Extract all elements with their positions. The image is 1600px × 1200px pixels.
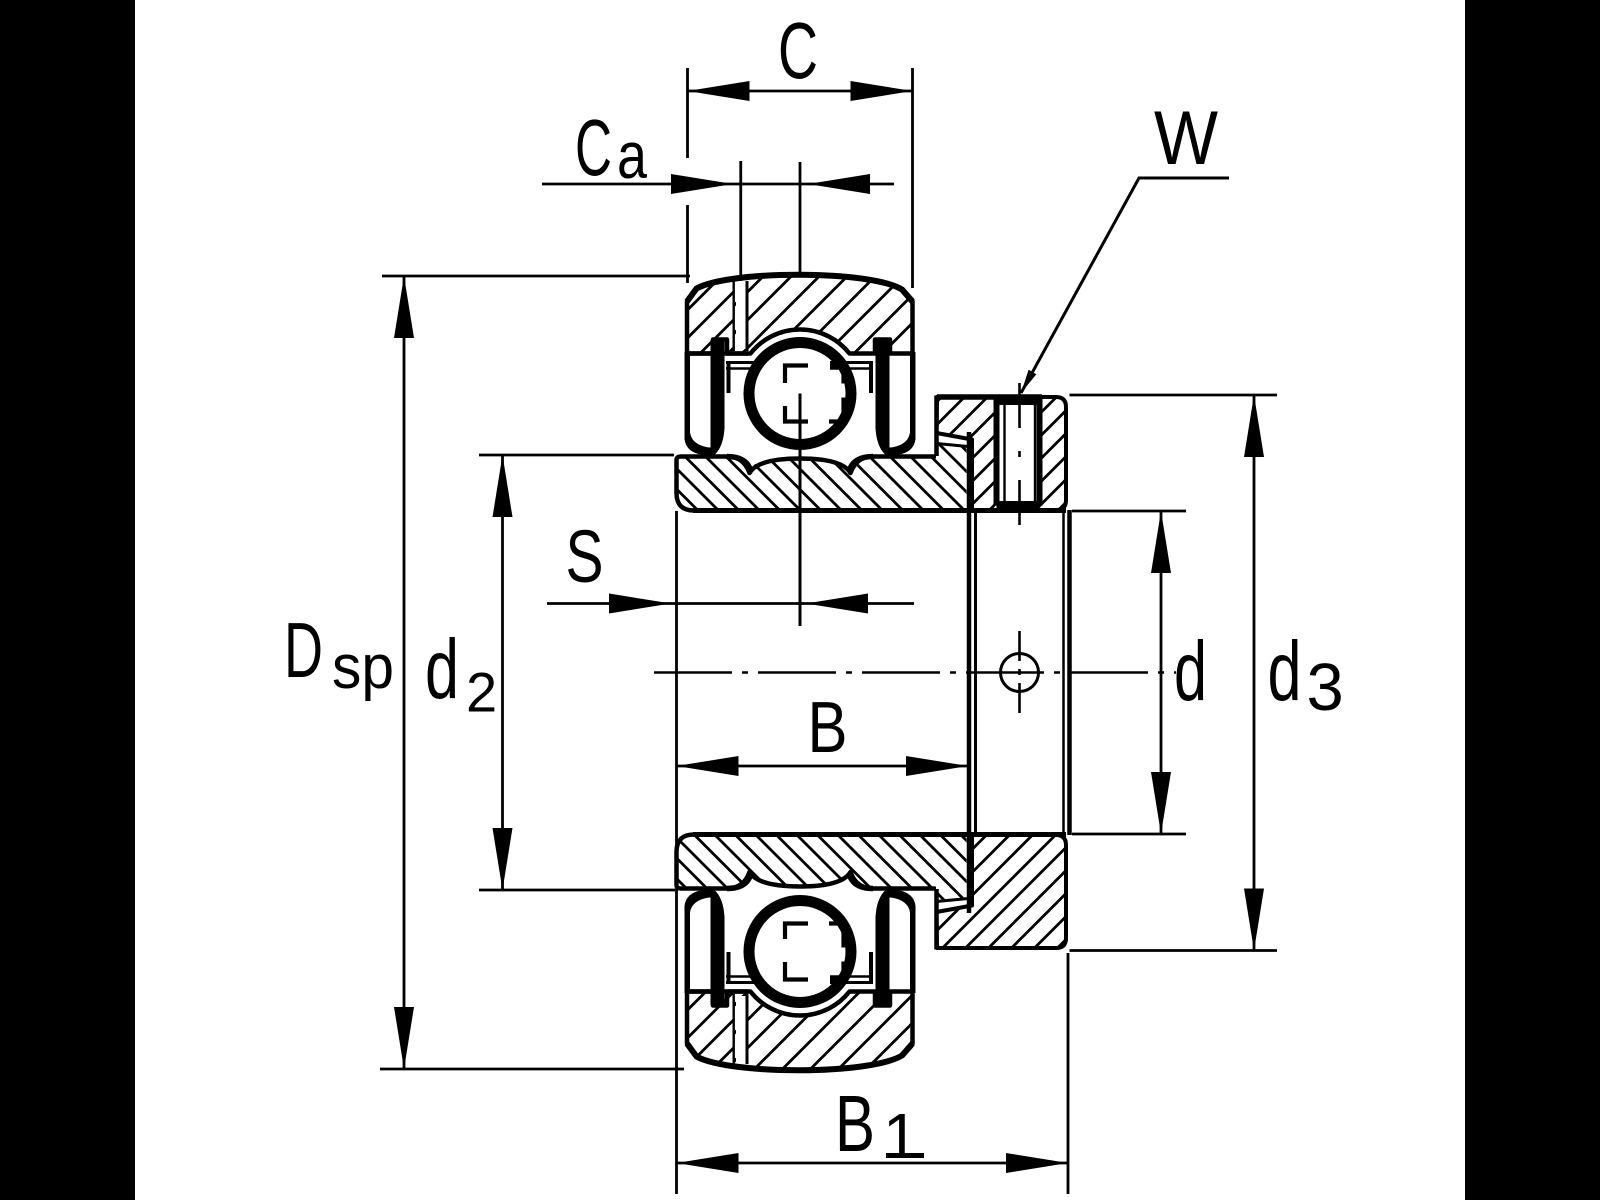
- outer ring top sphere curve (thick): [687, 275, 913, 302]
- B1 dimension: [677, 953, 1069, 1194]
- collar face edge: [934, 396, 939, 457]
- ball: [749, 343, 851, 445]
- inner ring extension surface line: [915, 455, 936, 459]
- screw hole: white + walls + threads: [994, 400, 1043, 506]
- inner ring outline: [677, 457, 935, 511]
- eccentric lower wedge line: [937, 444, 969, 447]
- Ca dimension: [542, 103, 894, 281]
- locating slot (white band): [736, 283, 746, 349]
- svg-text:S: S: [566, 515, 604, 598]
- C dimension: [688, 6, 913, 288]
- lower outer ring fill: [687, 992, 913, 1071]
- lower half = mirror: [677, 835, 1067, 1071]
- upper outer ring fill: [687, 275, 913, 354]
- S dimension: [547, 515, 914, 614]
- left seal: [685, 340, 725, 455]
- upper inner ring fill: [677, 444, 967, 511]
- screw circle on shaft: [1001, 654, 1039, 692]
- screw axis upper: [1018, 383, 1021, 530]
- Dsp dimension: [284, 276, 690, 1069]
- W label + leader: [1021, 96, 1229, 393]
- flange re-phase fills: [687, 281, 734, 353]
- cage square segments: [785, 366, 844, 422]
- lines crossing the bore (faces): [967, 510, 972, 835]
- svg-text:d: d: [1174, 624, 1207, 718]
- right seal: [876, 340, 916, 455]
- raceway shoulder curves: [727, 457, 750, 469]
- svg-text:W: W: [1154, 96, 1218, 181]
- boss step: [967, 432, 972, 511]
- lower inner ring fill: [677, 835, 967, 902]
- d dimension: [1072, 511, 1207, 834]
- svg-text:C: C: [778, 6, 818, 95]
- bore line: [693, 508, 1066, 513]
- outer ring outline: [687, 275, 913, 354]
- upper-only ball centerline: [799, 394, 802, 627]
- svg-text:B: B: [808, 688, 848, 768]
- d3 dimension: [1070, 395, 1344, 951]
- shaft axis: [654, 671, 1176, 674]
- d2 dimension: [425, 455, 675, 890]
- B dimension: [677, 511, 969, 1194]
- cage rails: [726, 361, 758, 364]
